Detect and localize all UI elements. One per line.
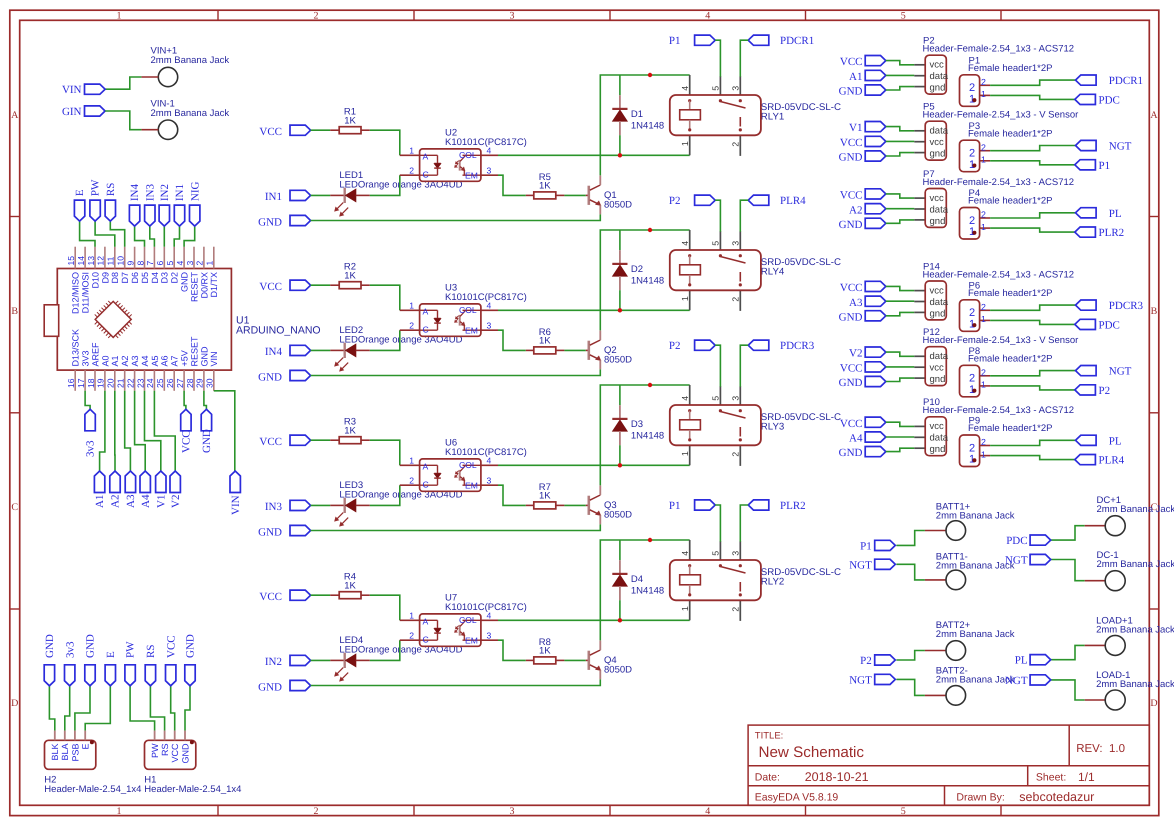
svg-text:VCC: VCC bbox=[840, 137, 863, 149]
net flag NGT (header P3) bbox=[1076, 140, 1132, 152]
svg-text:4: 4 bbox=[175, 261, 185, 266]
header P7 pin names bbox=[930, 193, 949, 227]
net flag IN1 (arduino top) bbox=[174, 184, 186, 226]
wire PW flag to arduino pin bbox=[95, 221, 115, 247]
svg-text:C: C bbox=[423, 170, 429, 180]
svg-text:2: 2 bbox=[981, 210, 986, 220]
net flag PDC (header P6) bbox=[1075, 319, 1120, 331]
net flag P1 (relay RLY2) bbox=[669, 500, 715, 512]
wire VIN flag to arduino pin 30 bbox=[214, 391, 235, 471]
svg-text:PDC: PDC bbox=[1099, 319, 1120, 331]
arduino U1 pin 13 stub bbox=[94, 247, 96, 269]
header P7 body bbox=[925, 189, 946, 228]
svg-text:RLY3: RLY3 bbox=[761, 421, 785, 432]
header P12 pin 3 stub bbox=[914, 377, 925, 379]
svg-text:P1: P1 bbox=[860, 540, 872, 552]
net flag GND (header P7 pin 3) bbox=[839, 218, 886, 231]
svg-text:2: 2 bbox=[981, 437, 986, 447]
svg-text:COL: COL bbox=[459, 615, 477, 625]
header P14 labels bbox=[923, 261, 1075, 280]
svg-text:C: C bbox=[423, 325, 429, 335]
header P3 pin 1 stub bbox=[980, 155, 991, 165]
svg-text:2: 2 bbox=[731, 452, 741, 457]
svg-text:3: 3 bbox=[487, 166, 492, 176]
led LED2 labels bbox=[339, 325, 462, 346]
svg-text:GND: GND bbox=[85, 634, 97, 658]
header P4 pin 1 stub bbox=[980, 222, 991, 232]
net flag GIN bbox=[62, 106, 105, 118]
net flag NGT (header P8) bbox=[1076, 366, 1132, 378]
wire R4 to U7 pin1 bbox=[370, 595, 400, 620]
header P7 pin 3 stub bbox=[914, 219, 925, 221]
header P5 labels bbox=[923, 102, 1079, 121]
optocoupler U6 pin 3 bbox=[481, 476, 498, 486]
optocoupler U3 pin 4 bbox=[481, 301, 498, 311]
svg-text:VCC: VCC bbox=[170, 743, 180, 763]
resistor R4 bbox=[330, 592, 370, 599]
svg-text:8050D: 8050D bbox=[604, 355, 632, 366]
net flag PDCR3 (header P6) bbox=[1076, 300, 1144, 312]
transistor Q2 labels bbox=[604, 345, 632, 366]
net flag GND (bottom header) bbox=[185, 634, 197, 686]
svg-text:D13/SCK: D13/SCK bbox=[71, 329, 81, 367]
wire V1 flag to arduino pin bbox=[145, 391, 161, 471]
net flag A1 (header P2 pin 2) bbox=[849, 70, 886, 83]
svg-text:VCC: VCC bbox=[259, 436, 282, 448]
header P1 inside pin names bbox=[969, 82, 975, 105]
svg-text:8050D: 8050D bbox=[604, 510, 632, 521]
svg-text:PSB: PSB bbox=[70, 744, 80, 762]
svg-text:3: 3 bbox=[731, 86, 741, 91]
relay RLY2 labels bbox=[761, 567, 841, 588]
svg-text:P2: P2 bbox=[860, 655, 872, 667]
svg-text:A4: A4 bbox=[140, 355, 150, 366]
svg-text:1N4148: 1N4148 bbox=[631, 121, 664, 132]
svg-text:PDC: PDC bbox=[1099, 94, 1120, 106]
svg-text:1K: 1K bbox=[539, 645, 551, 656]
svg-text:4: 4 bbox=[487, 146, 492, 156]
relay RLY2 pin 1 stub bbox=[680, 600, 690, 620]
svg-text:IN2: IN2 bbox=[265, 656, 282, 668]
svg-text:A: A bbox=[11, 110, 19, 121]
junction dot relay row (channel 3) bbox=[648, 383, 652, 387]
svg-text:E: E bbox=[105, 651, 117, 658]
relay RLY3 pin 3 stub bbox=[731, 386, 741, 405]
wire GND flag to arduino pin 29 bbox=[204, 391, 207, 410]
wire A4 to header P10 bbox=[886, 436, 915, 438]
ruler numbers top bbox=[117, 10, 906, 21]
relay RLY4 coil bbox=[680, 254, 701, 286]
net flag GND (channel 3) bbox=[258, 525, 310, 538]
net flag IN3 (channel 3) bbox=[265, 500, 311, 513]
title block Drawn By sebcotedazur bbox=[956, 790, 1094, 804]
svg-text:PLR4: PLR4 bbox=[1099, 455, 1125, 467]
svg-text:3: 3 bbox=[731, 551, 741, 556]
wire header P6 pin1 to PDC bbox=[990, 320, 1075, 324]
banana jack BATT2- labels bbox=[936, 666, 1015, 686]
svg-text:1: 1 bbox=[680, 451, 690, 456]
wire IN3 to LED3 bbox=[311, 504, 331, 506]
svg-text:4: 4 bbox=[680, 396, 690, 401]
header P6 body bbox=[960, 300, 980, 332]
svg-text:A3: A3 bbox=[130, 355, 140, 366]
svg-text:VIN: VIN bbox=[209, 351, 219, 366]
header P12 pin 2 stub bbox=[914, 366, 925, 368]
svg-text:2mm Banana Jack: 2mm Banana Jack bbox=[1097, 559, 1174, 570]
svg-text:A7: A7 bbox=[170, 355, 180, 366]
banana jack BATT1- bbox=[925, 570, 966, 590]
net flag IN2 (channel 4) bbox=[265, 655, 311, 668]
svg-text:VCC: VCC bbox=[259, 281, 282, 293]
header P2 pin 3 stub bbox=[914, 86, 925, 88]
optocoupler U2 labels bbox=[445, 128, 527, 149]
junction dot D1 anode bbox=[618, 153, 622, 157]
wire header P9 pin1 to PLR4 bbox=[990, 456, 1075, 460]
wire RS flag to header pin bbox=[150, 686, 164, 731]
svg-text:D: D bbox=[11, 698, 18, 709]
svg-text:7: 7 bbox=[145, 261, 155, 266]
wire PDCR3 to relay pin 3 bbox=[740, 345, 748, 387]
resistor R2 bbox=[330, 282, 370, 289]
svg-text:PL: PL bbox=[1015, 655, 1028, 667]
header P10 pin 1 stub bbox=[914, 425, 925, 427]
svg-text:1N4148: 1N4148 bbox=[631, 586, 664, 597]
wire Q1 collector up (channel 1) bbox=[600, 75, 689, 175]
svg-text:VCC: VCC bbox=[165, 635, 177, 658]
wire D1 anode down to coil row bbox=[619, 135, 621, 155]
net flag RS (bottom header) bbox=[145, 645, 157, 686]
net flag PL (header P9) bbox=[1076, 435, 1122, 447]
svg-text:VCC: VCC bbox=[259, 591, 282, 603]
header P6 labels bbox=[968, 280, 1053, 299]
net flag PLR2 (header P4) bbox=[1075, 227, 1124, 239]
arduino U1 pin 9 stub bbox=[134, 247, 136, 269]
net flag GIN (arduino top) bbox=[189, 181, 201, 226]
wire GND to header P12 bbox=[886, 378, 915, 381]
svg-text:2: 2 bbox=[981, 367, 986, 377]
header P8 inside pin names bbox=[969, 373, 975, 396]
net flag P2 (relay RLY4) bbox=[669, 195, 715, 207]
header P14 pin 1 stub bbox=[914, 290, 925, 292]
svg-text:2: 2 bbox=[981, 142, 986, 152]
resistor R4 value labels bbox=[344, 572, 357, 592]
wire GND row (channel 4) bbox=[311, 679, 601, 685]
svg-text:IN3: IN3 bbox=[265, 501, 283, 513]
wire D4 anode down to coil row bbox=[619, 600, 621, 620]
wire header P6 pin2 to PDCR3 bbox=[990, 305, 1075, 310]
arduino U1 pin 15 stub bbox=[74, 247, 76, 269]
svg-text:GND: GND bbox=[839, 219, 863, 231]
banana jack DC-1 labels bbox=[1097, 550, 1174, 570]
svg-text:V2: V2 bbox=[849, 348, 862, 360]
svg-text:C: C bbox=[11, 502, 18, 513]
optocoupler U6 internal phototransistor bbox=[455, 465, 481, 485]
svg-text:3: 3 bbox=[487, 631, 492, 641]
wire VCC to header P12 bbox=[886, 366, 915, 368]
wire R1 to U2 pin1 bbox=[370, 130, 400, 155]
header P9 labels bbox=[968, 416, 1053, 435]
header P2 pin 1 stub bbox=[914, 64, 925, 66]
header P3 labels bbox=[968, 121, 1053, 140]
svg-text:sebcotedazur: sebcotedazur bbox=[1019, 790, 1094, 804]
svg-text:2: 2 bbox=[969, 442, 975, 454]
svg-text:D8: D8 bbox=[110, 272, 120, 284]
wire U7 pin3 to R8 bbox=[498, 640, 526, 660]
svg-text:28: 28 bbox=[185, 378, 195, 388]
svg-text:2: 2 bbox=[731, 607, 741, 612]
wire Q3 collector up (channel 3) bbox=[600, 385, 689, 485]
diode D2 labels bbox=[631, 264, 664, 287]
wire LED3 to U6 pin2 bbox=[370, 485, 400, 505]
svg-text:D10: D10 bbox=[90, 272, 100, 289]
svg-text:4: 4 bbox=[680, 551, 690, 556]
net flag VCC (channel 3) bbox=[259, 435, 310, 448]
svg-text:2: 2 bbox=[731, 297, 741, 302]
optocoupler U6 body bbox=[420, 459, 481, 491]
svg-text:4: 4 bbox=[680, 86, 690, 91]
svg-text:AREF: AREF bbox=[90, 342, 100, 367]
wire PDC to DC+1 bbox=[1051, 526, 1085, 540]
wire D1 cathode up bbox=[619, 75, 621, 95]
wire VCC to R1 bbox=[311, 129, 331, 131]
svg-text:3: 3 bbox=[510, 806, 515, 817]
header P12 pin 1 stub bbox=[914, 355, 925, 357]
svg-text:15: 15 bbox=[66, 256, 76, 266]
svg-text:D4: D4 bbox=[631, 574, 643, 585]
svg-text:PDC: PDC bbox=[1006, 535, 1027, 547]
svg-text:A1: A1 bbox=[110, 355, 120, 366]
svg-text:GND: GND bbox=[258, 216, 282, 228]
svg-text:GND: GND bbox=[839, 86, 863, 98]
relay RLY1 labels bbox=[761, 102, 841, 123]
svg-text:1: 1 bbox=[117, 806, 122, 817]
optocoupler U2 pin 1 bbox=[400, 146, 420, 156]
wire E flag to arduino pin bbox=[80, 221, 95, 247]
header P9 inside pin names bbox=[969, 442, 975, 465]
svg-text:22: 22 bbox=[125, 378, 135, 388]
svg-text:GND: GND bbox=[199, 346, 209, 367]
svg-text:PLR2: PLR2 bbox=[780, 500, 806, 512]
svg-text:A0: A0 bbox=[100, 355, 110, 366]
svg-text:1K: 1K bbox=[539, 180, 551, 191]
header P5 pin 3 stub bbox=[914, 152, 925, 154]
svg-text:D1/TX: D1/TX bbox=[209, 272, 219, 298]
svg-text:P1: P1 bbox=[669, 35, 681, 47]
header P3 pin 2 stub bbox=[980, 142, 991, 152]
header P5 pin names bbox=[930, 126, 949, 160]
header P2 labels bbox=[923, 36, 1075, 55]
svg-text:1: 1 bbox=[981, 155, 986, 165]
wire V1 to header P5 bbox=[886, 127, 915, 131]
relay RLY1 coil bbox=[680, 99, 701, 131]
wire U6 pin3 to R7 bbox=[498, 485, 526, 505]
svg-text:A4: A4 bbox=[849, 433, 863, 445]
wire NGT to BATT2- bbox=[896, 679, 925, 695]
svg-text:A: A bbox=[1150, 110, 1158, 121]
wire VCC flag to arduino pin 27 bbox=[184, 391, 186, 410]
led LED1 bbox=[330, 188, 370, 216]
svg-text:16: 16 bbox=[66, 378, 76, 388]
wire V2 to header P12 bbox=[886, 352, 915, 356]
svg-text:PL: PL bbox=[1109, 208, 1122, 220]
wire Q4 collector up (channel 4) bbox=[600, 540, 689, 640]
ruler letters left bbox=[11, 110, 19, 709]
wire R2 to U3 pin1 bbox=[370, 285, 400, 310]
led LED4 bbox=[330, 653, 370, 681]
svg-text:24: 24 bbox=[145, 378, 155, 388]
relay RLY4 body bbox=[670, 250, 761, 290]
wire 3v3 flag to header pin bbox=[65, 686, 70, 731]
banana jack BATT2- bbox=[925, 686, 966, 706]
optocoupler U6 pin 1 bbox=[400, 456, 420, 466]
relay RLY2 pin 4 stub bbox=[680, 540, 690, 560]
svg-text:vcc: vcc bbox=[930, 193, 945, 204]
header P10 pin names bbox=[930, 421, 949, 455]
wire VCC to R2 bbox=[311, 284, 331, 286]
resistor R7 value labels bbox=[539, 482, 552, 502]
svg-text:GND: GND bbox=[180, 272, 190, 293]
svg-text:2: 2 bbox=[195, 261, 205, 266]
svg-text:2018-10-21: 2018-10-21 bbox=[805, 770, 869, 784]
optocoupler U2 internal led bbox=[420, 155, 441, 175]
header P12 pin names bbox=[930, 351, 949, 385]
svg-text:RS: RS bbox=[145, 645, 157, 658]
svg-text:VCC: VCC bbox=[840, 56, 863, 68]
svg-text:11: 11 bbox=[106, 256, 116, 265]
ruler numbers bottom bbox=[117, 806, 906, 817]
wire 3v3 flag to arduino pin 17 bbox=[85, 391, 90, 410]
svg-text:4: 4 bbox=[680, 241, 690, 246]
header P4 polarity dot bbox=[972, 231, 976, 235]
net flag PL (LOAD+1) bbox=[1015, 655, 1051, 667]
net flag NGT (BATT2-) bbox=[849, 674, 895, 686]
header H2 pin 1 stub bbox=[54, 731, 56, 741]
svg-text:Female header1*2P: Female header1*2P bbox=[968, 196, 1053, 207]
junction dot D4 anode bbox=[618, 618, 622, 622]
wire NGT to DC-1 bbox=[1051, 560, 1085, 581]
svg-text:2mm Banana Jack: 2mm Banana Jack bbox=[151, 55, 230, 66]
header P4 labels bbox=[968, 188, 1053, 207]
optocoupler U3 pin 3 bbox=[481, 321, 498, 331]
net flag V1 (header P5 pin 1) bbox=[849, 122, 886, 135]
svg-text:RESET: RESET bbox=[189, 272, 199, 303]
relay RLY4 pin 5 stub bbox=[711, 231, 721, 250]
banana jack BATT1+ bbox=[925, 521, 966, 541]
wire GIN flag to VIN-1 bbox=[105, 111, 141, 130]
header H2 polarity dot bbox=[90, 740, 94, 744]
ruler ticks left bbox=[10, 217, 20, 610]
transistor Q2 bbox=[586, 331, 601, 370]
svg-text:VIN: VIN bbox=[230, 495, 242, 515]
net flag GND (header P10 pin 3) bbox=[839, 447, 886, 460]
svg-text:EasyEDA V5.8.19: EasyEDA V5.8.19 bbox=[755, 792, 839, 804]
header P3 inside pin names bbox=[969, 148, 975, 171]
wire GND row (channel 3) bbox=[311, 524, 601, 530]
banana jack DC+1 bbox=[1085, 516, 1126, 536]
wire U3 pin3 to R6 bbox=[498, 330, 526, 350]
svg-text:1: 1 bbox=[117, 10, 122, 21]
wire IN3 flag to arduino pin bbox=[150, 226, 155, 247]
svg-text:1K: 1K bbox=[344, 581, 356, 592]
arduino U1 pin 12 stub bbox=[104, 247, 106, 269]
svg-text:2: 2 bbox=[731, 142, 741, 147]
header P4 body bbox=[960, 208, 980, 240]
arduino U1 pin 16 stub bbox=[74, 370, 76, 391]
wire P1 to relay pin 5 bbox=[715, 505, 720, 542]
net flag PLR4 (header P9) bbox=[1075, 455, 1125, 467]
net flag IN4 (arduino top) bbox=[129, 183, 141, 226]
wire IN1 to LED1 bbox=[311, 194, 331, 196]
junction dot relay row (channel 1) bbox=[648, 73, 652, 77]
diode D1 labels bbox=[631, 109, 664, 132]
net flag PDC (DC+1) bbox=[1006, 535, 1051, 547]
svg-text:data: data bbox=[930, 433, 949, 444]
svg-text:30: 30 bbox=[205, 378, 215, 388]
wire GND to header P10 bbox=[886, 448, 915, 451]
wire VCC to header P14 bbox=[886, 286, 915, 290]
svg-text:20: 20 bbox=[106, 378, 116, 388]
svg-text:PLR4: PLR4 bbox=[780, 195, 806, 207]
svg-text:2: 2 bbox=[314, 10, 319, 21]
svg-text:D3: D3 bbox=[160, 272, 170, 284]
svg-text:V2: V2 bbox=[170, 495, 182, 508]
header P5 pin 2 stub bbox=[914, 141, 925, 143]
svg-text:gnd: gnd bbox=[930, 216, 946, 227]
svg-text:2: 2 bbox=[981, 77, 986, 87]
svg-text:3: 3 bbox=[487, 476, 492, 486]
svg-text:VCC: VCC bbox=[259, 126, 282, 138]
svg-text:3: 3 bbox=[487, 321, 492, 331]
svg-text:1K: 1K bbox=[344, 116, 356, 127]
svg-text:BLK: BLK bbox=[50, 744, 60, 761]
svg-text:vcc: vcc bbox=[930, 421, 945, 432]
net flag A2 (header P7 pin 2) bbox=[849, 204, 886, 217]
arduino U1 pin 24 stub bbox=[153, 370, 155, 391]
wire R8 to Q4 base bbox=[564, 659, 585, 661]
arduino U1 pin 22 stub bbox=[134, 370, 136, 391]
arduino U1 pin 6 stub bbox=[163, 247, 165, 269]
net flag 3v3 (bottom header) bbox=[64, 641, 76, 686]
svg-text:V1: V1 bbox=[849, 122, 862, 134]
svg-text:New Schematic: New Schematic bbox=[759, 744, 865, 761]
svg-text:NIG: NIG bbox=[189, 181, 201, 201]
svg-text:1: 1 bbox=[981, 314, 986, 324]
svg-text:E: E bbox=[74, 189, 86, 196]
svg-text:2mm Banana Jack: 2mm Banana Jack bbox=[1096, 679, 1174, 690]
header P10 pin 3 stub bbox=[914, 447, 925, 449]
svg-text:1: 1 bbox=[981, 380, 986, 390]
net flag IN4 (channel 2) bbox=[265, 345, 311, 358]
svg-text:18: 18 bbox=[86, 378, 96, 388]
wire VCC to R3 bbox=[311, 439, 331, 441]
relay RLY4 pin 3 stub bbox=[731, 231, 741, 250]
net flag NGT (BATT1-) bbox=[849, 559, 895, 571]
svg-text:EM: EM bbox=[465, 325, 478, 335]
svg-text:10: 10 bbox=[116, 256, 126, 266]
transistor Q1 labels bbox=[604, 190, 632, 211]
header H1 labels bbox=[144, 775, 241, 795]
svg-text:4: 4 bbox=[705, 806, 710, 817]
optocoupler U3 internal phototransistor bbox=[455, 310, 481, 330]
svg-text:1: 1 bbox=[981, 449, 986, 459]
net flag VIN (arduino bottom) bbox=[230, 471, 242, 515]
svg-text:25: 25 bbox=[155, 378, 165, 388]
net flag E (arduino top) bbox=[74, 189, 86, 221]
wire D3 anode down to coil row bbox=[619, 445, 621, 465]
arduino U1 pin 4 stub bbox=[183, 247, 185, 269]
arduino U1 pin 20 stub bbox=[114, 370, 116, 391]
net flag P1 (BATT1+) bbox=[860, 540, 895, 552]
